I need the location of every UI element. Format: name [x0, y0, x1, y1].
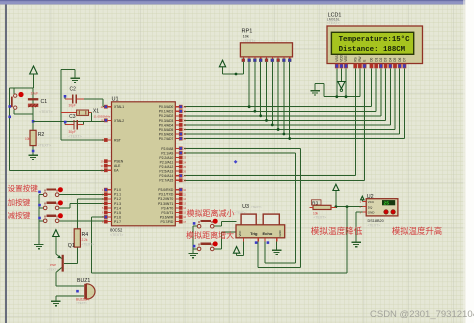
svg-text:P3.4/T0: P3.4/T0: [161, 206, 173, 210]
svg-text:VSS: VSS: [335, 55, 339, 61]
svg-text:ALE: ALE: [114, 164, 121, 168]
svg-text:U1: U1: [112, 96, 119, 102]
svg-text:CSDN @2301_79312104: CSDN @2301_79312104: [370, 309, 474, 320]
svg-text:XTAL1: XTAL1: [114, 105, 124, 109]
svg-text:<TEXT>: <TEXT>: [76, 301, 87, 305]
svg-text:模拟距离增大: 模拟距离增大: [186, 230, 234, 240]
svg-text:2.2k: 2.2k: [82, 238, 88, 242]
svg-text:P3.0/RXD: P3.0/RXD: [158, 188, 174, 192]
svg-text:11.0592MHz: 11.0592MHz: [94, 114, 111, 118]
svg-text:P1.0: P1.0: [114, 188, 121, 192]
svg-text:D7: D7: [403, 57, 407, 61]
svg-text:P2.1/A9: P2.1/A9: [161, 151, 173, 155]
svg-text:80C52: 80C52: [110, 227, 123, 232]
svg-text:模拟距离减小: 模拟距离减小: [187, 208, 235, 218]
svg-text:R2: R2: [38, 132, 45, 138]
svg-text:Q1: Q1: [68, 243, 75, 249]
svg-text:设置按键: 设置按键: [8, 183, 39, 193]
svg-text:P0.3/AD3: P0.3/AD3: [159, 119, 174, 123]
svg-text:30pF: 30pF: [69, 103, 76, 107]
svg-text:RST: RST: [114, 138, 121, 142]
svg-text:D5: D5: [393, 57, 397, 61]
svg-text:P0.5/AD5: P0.5/AD5: [159, 128, 174, 132]
svg-text:PNP: PNP: [50, 263, 56, 267]
svg-text:P1.5: P1.5: [114, 211, 121, 215]
svg-text:<TEXT>: <TEXT>: [110, 233, 123, 237]
svg-text:10uF: 10uF: [31, 92, 39, 96]
svg-text:BUZ1: BUZ1: [77, 278, 90, 284]
svg-text:VEE: VEE: [344, 55, 348, 61]
svg-text:减按键: 减按键: [8, 210, 31, 220]
svg-text:<TEXT>: <TEXT>: [251, 205, 262, 209]
svg-text:10k: 10k: [25, 137, 31, 141]
svg-text:P2.5/A13: P2.5/A13: [159, 170, 173, 174]
svg-text:RW: RW: [358, 57, 362, 62]
svg-text:U3: U3: [242, 204, 249, 210]
svg-text:DQ: DQ: [368, 205, 373, 209]
svg-text:PSEN: PSEN: [114, 160, 124, 164]
svg-text:25: 25: [384, 201, 390, 207]
svg-text:加按键: 加按键: [8, 197, 31, 207]
svg-text:P0.6/AD6: P0.6/AD6: [159, 132, 174, 136]
svg-text:<TEXT>: <TEXT>: [47, 268, 58, 272]
svg-text:Temperature:15°C: Temperature:15°C: [339, 35, 411, 44]
svg-text:Distance: 188CM: Distance: 188CM: [339, 46, 406, 54]
svg-text:<TEXT>: <TEXT>: [243, 39, 256, 43]
svg-text:P0.1/AD1: P0.1/AD1: [159, 110, 174, 114]
svg-text:P1.4: P1.4: [114, 206, 121, 210]
svg-text:D2: D2: [379, 57, 383, 61]
svg-text:P1.2: P1.2: [114, 197, 121, 201]
svg-text:Echo: Echo: [263, 231, 273, 236]
svg-text:P1.6: P1.6: [114, 215, 121, 219]
svg-text:<TEXT>: <TEXT>: [82, 243, 95, 247]
svg-text:D6: D6: [398, 57, 402, 61]
svg-text:P1.1: P1.1: [114, 193, 121, 197]
svg-text:<TEXT>: <TEXT>: [327, 21, 340, 25]
svg-text:C3: C3: [69, 114, 76, 120]
svg-text:P0.4/AD4: P0.4/AD4: [159, 123, 174, 127]
svg-text:P0.7/AD7: P0.7/AD7: [159, 137, 174, 141]
svg-text:P3.2/INT0: P3.2/INT0: [158, 197, 173, 201]
svg-text:P2.2/A10: P2.2/A10: [159, 156, 173, 160]
svg-text:P2.6/A14: P2.6/A14: [159, 174, 173, 178]
svg-text:D0: D0: [370, 57, 374, 61]
svg-text:D3: D3: [384, 57, 388, 61]
svg-text:模拟温度降低: 模拟温度降低: [311, 225, 363, 236]
svg-text:RS: RS: [353, 57, 357, 61]
svg-text:P3.3/INT1: P3.3/INT1: [158, 202, 173, 206]
svg-text:DS18B20: DS18B20: [368, 219, 384, 223]
svg-text:P3.1/TXD: P3.1/TXD: [159, 193, 174, 197]
svg-text:<TEXT>: <TEXT>: [38, 143, 51, 147]
svg-text:P0.0/AD0: P0.0/AD0: [159, 105, 174, 109]
svg-text:EA: EA: [114, 169, 119, 173]
svg-text:VCC: VCC: [238, 231, 242, 237]
svg-text:P1.3: P1.3: [114, 202, 121, 206]
svg-text:D1: D1: [374, 57, 378, 61]
svg-text:模拟温度升高: 模拟温度升高: [392, 226, 442, 236]
svg-text:VDD: VDD: [340, 54, 344, 61]
svg-text:<TEXT>: <TEXT>: [314, 215, 327, 219]
svg-text:P2.0/A8: P2.0/A8: [161, 147, 173, 151]
svg-text:P0.2/AD2: P0.2/AD2: [159, 114, 174, 118]
svg-text:GND: GND: [278, 230, 282, 236]
svg-text:<TEXT>: <TEXT>: [368, 224, 381, 228]
svg-text:P2.7/A15: P2.7/A15: [159, 179, 173, 183]
svg-text:RP1: RP1: [242, 28, 253, 34]
svg-text:<TEXT>: <TEXT>: [39, 110, 52, 114]
svg-text:VCC: VCC: [368, 200, 375, 204]
svg-text:GND: GND: [368, 211, 376, 215]
svg-text:U2: U2: [367, 194, 374, 200]
svg-text:Trig: Trig: [250, 231, 258, 236]
svg-text:P2.3/A11: P2.3/A11: [160, 160, 174, 164]
svg-text:P3.7/RD: P3.7/RD: [160, 220, 173, 224]
svg-text:P3.5/T1: P3.5/T1: [161, 211, 173, 215]
svg-text:P3.6/WR: P3.6/WR: [160, 215, 174, 219]
svg-text:P2.4/A12: P2.4/A12: [159, 165, 173, 169]
svg-text:C1: C1: [41, 99, 48, 105]
svg-text:C2: C2: [70, 87, 77, 93]
svg-text:P1.7: P1.7: [114, 220, 121, 224]
svg-text:D4: D4: [388, 57, 392, 61]
svg-text:<TEXT>: <TEXT>: [68, 135, 81, 139]
svg-text:XTAL2: XTAL2: [114, 119, 124, 123]
svg-text:E: E: [363, 60, 367, 62]
svg-text:30pF: 30pF: [69, 130, 76, 134]
